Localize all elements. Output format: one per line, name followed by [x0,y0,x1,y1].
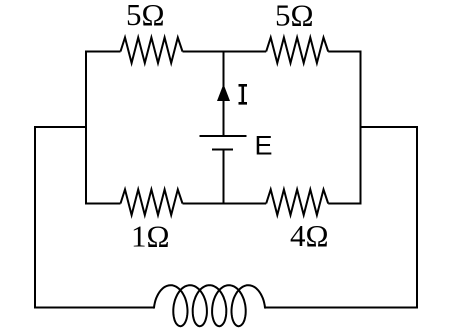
wire top horizontal left segment [86,51,121,53]
resistor R3 1ohm bottom-left [121,190,183,216]
wire left stub to outer loop [35,126,86,128]
resistor R2 5ohm top-right [266,38,328,64]
resistor R1 5ohm top-left [121,38,183,64]
inductor L1 coil [154,285,265,326]
label I current [239,85,248,103]
wire bottom inner horizontal middle segment [183,203,267,205]
wire bottom outer right segment [265,307,418,309]
svg-text:1Ω: 1Ω [131,219,170,254]
wire bottom inner horizontal right segment [328,203,360,205]
wire right stub to outer loop [361,126,418,128]
svg-text:5Ω: 5Ω [126,0,165,32]
current arrow I head [217,84,230,101]
svg-text:E: E [255,131,273,161]
wire bottom inner horizontal left segment [86,203,121,205]
wire top horizontal middle segment [183,51,267,53]
wire center branch lower [223,150,225,204]
battery E positive plate (long) [200,135,247,137]
wire top horizontal right segment [328,51,360,53]
svg-text:5Ω: 5Ω [275,0,314,33]
svg-text:4Ω: 4Ω [290,218,329,253]
wire inner left vertical [85,51,87,205]
wire center branch upper (node to arrow to battery) [223,52,225,137]
wire outer left vertical [34,126,36,308]
wire outer right vertical [416,126,418,308]
wire bottom outer left segment [34,307,154,309]
resistor R4 4ohm bottom-right [266,190,328,216]
battery E negative plate (short) [212,149,233,151]
wire inner right vertical [360,51,362,205]
